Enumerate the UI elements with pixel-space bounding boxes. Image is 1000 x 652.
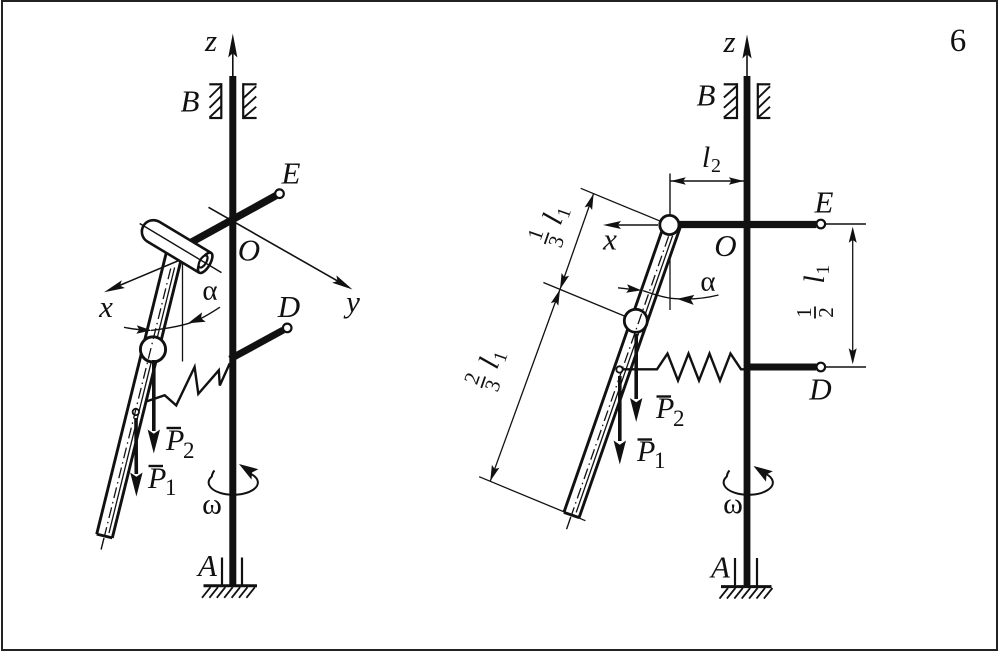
right l2 dimension line	[671, 180, 745, 182]
svg-text:O: O	[238, 233, 260, 268]
left small pin on rod	[133, 409, 139, 415]
left angle alpha arc	[124, 327, 150, 330]
svg-text:2: 2	[673, 406, 685, 431]
svg-text:l: l	[702, 141, 710, 174]
right force P1 arrow	[618, 376, 622, 441]
left pin E	[275, 189, 284, 198]
svg-text:O: O	[714, 228, 736, 263]
right pin E	[817, 220, 826, 229]
svg-text:1: 1	[654, 448, 666, 473]
right rod OE	[670, 221, 817, 228]
right dim extension line top	[581, 188, 668, 224]
left cylinder sleeve at hinge O1	[142, 220, 211, 273]
left x-axis line	[109, 252, 201, 291]
right bearing A walls	[734, 558, 736, 586]
left cylinder axis line	[140, 224, 222, 273]
svg-text:2: 2	[711, 155, 721, 177]
right rod centerline	[572, 236, 669, 515]
svg-text:1: 1	[165, 475, 177, 500]
svg-text:B: B	[181, 84, 200, 119]
left pin D	[283, 324, 292, 333]
left hinge circle C	[140, 337, 165, 362]
svg-text:2: 2	[814, 307, 838, 318]
svg-text:B: B	[697, 78, 716, 113]
svg-text:α: α	[700, 266, 715, 298]
svg-text:D: D	[808, 372, 831, 407]
right dim extension line bottom	[479, 477, 585, 521]
right D extension line	[825, 366, 866, 368]
left rod OD	[230, 330, 283, 359]
svg-text:1: 1	[792, 307, 816, 318]
svg-text:x: x	[602, 222, 617, 257]
svg-text:3: 3	[543, 233, 569, 251]
left spring	[147, 363, 230, 405]
svg-text:E: E	[281, 156, 301, 191]
right alpha reference vertical	[669, 226, 671, 310]
right dimension line 2/3 l1	[490, 289, 560, 481]
right spring	[623, 354, 745, 381]
svg-text:z: z	[722, 24, 735, 59]
left bearing B block right	[243, 83, 256, 85]
svg-text:ω: ω	[723, 487, 743, 520]
left bearing B block left	[209, 83, 221, 85]
left rod OE	[190, 195, 278, 243]
right x-axis	[608, 224, 658, 226]
right middle hinge circle	[624, 309, 647, 332]
left alpha reference vertical	[182, 252, 184, 362]
right l2 extension line	[669, 174, 671, 223]
right force P2 arrow	[634, 334, 638, 399]
left bearing A walls	[221, 558, 223, 586]
left y-axis line	[209, 207, 349, 287]
svg-text:3: 3	[480, 377, 506, 395]
svg-text:1: 1	[813, 265, 834, 275]
svg-text:6: 6	[950, 23, 967, 59]
svg-text:y: y	[343, 284, 360, 319]
svg-text:x: x	[98, 289, 113, 324]
right bearing B block right	[758, 83, 771, 85]
left rod centerline	[105, 269, 171, 537]
left omega rotation arrow	[209, 471, 258, 495]
svg-text:D: D	[277, 289, 300, 324]
right shaft AB	[744, 76, 751, 586]
left shaft AB	[229, 76, 236, 586]
svg-text:E: E	[814, 185, 834, 220]
right omega rotation arrow	[724, 471, 773, 495]
right rod OD	[747, 364, 816, 371]
left force P1 arrow	[134, 418, 138, 474]
left force P2 arrow	[152, 360, 156, 431]
left ground hatching at A	[204, 584, 258, 587]
svg-text:l: l	[798, 275, 831, 283]
right ground hatching at A	[721, 585, 772, 588]
right label 1/3 l1	[522, 198, 579, 251]
svg-text:2: 2	[183, 438, 195, 463]
right pin D	[817, 363, 826, 372]
right bearing B block left	[724, 83, 737, 85]
svg-text:ω: ω	[202, 488, 222, 521]
svg-text:A: A	[196, 548, 218, 583]
left pendulum rod OA1	[97, 251, 183, 538]
svg-text:A: A	[709, 550, 731, 585]
right angle alpha arc	[618, 288, 630, 289]
right dim extension line middle	[543, 283, 634, 321]
right top hinge circle	[660, 215, 679, 234]
right dimension line 1/3 l1	[560, 194, 594, 290]
right small pin on rod	[616, 366, 622, 372]
svg-text:z: z	[204, 23, 217, 58]
left z-axis arrow	[232, 50, 234, 77]
right label 2/3 l1	[459, 342, 516, 395]
right E extension line	[825, 223, 866, 225]
right dimension line 1/2 l1	[852, 229, 854, 362]
svg-text:α: α	[202, 275, 217, 307]
right label 1/2 l1	[792, 265, 838, 319]
right z-axis arrow	[746, 52, 748, 77]
right pendulum rod	[564, 222, 680, 517]
